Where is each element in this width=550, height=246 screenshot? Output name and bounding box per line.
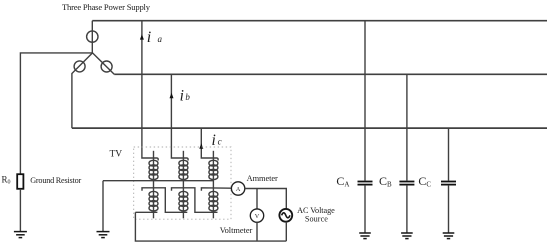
wire tap phase C (ic) [201,128,213,158]
svg-text:ib: ib [180,88,191,105]
transformer T1 primary winding [149,158,158,180]
wire neutral from star point to ground resistor [20,53,92,174]
wire T1 secondary bottom lead [135,211,157,213]
three-phase source winding C (right circle) [93,53,115,74]
transformer T2 axis [182,151,184,219]
arrow ib [170,93,174,98]
transformer T2 secondary winding [179,191,188,211]
wire AC source bottom to loop [285,222,287,241]
arrow ia [140,34,144,39]
svg-text:V: V [255,213,260,220]
wire T1 secondary top lead [142,188,187,213]
svg-text:A: A [236,186,241,193]
capacitor CA [358,182,373,185]
svg-text:CA: CA [336,174,349,189]
wire primary neutral bus [103,180,213,182]
ground (TV primary neutral) [97,232,110,238]
transformer T1 secondary winding [149,191,158,211]
capacitor CB wire bottom [406,186,408,233]
wire tap phase B (ib) [171,74,183,158]
arrow ic [199,143,203,148]
wire primary neutral down [102,181,104,232]
svg-text:R0: R0 [2,174,11,185]
svg-text:CB: CB [379,174,392,189]
capacitor CB [399,182,414,185]
svg-text:ia: ia [147,29,163,46]
three-phase source winding A (top circle) [87,21,98,53]
svg-text:Three Phase Power Supply: Three Phase Power Supply [62,2,151,12]
capacitor CC wire bottom [448,186,450,233]
AC voltage source U3 [279,209,292,222]
transformer T3 primary winding [209,158,218,180]
svg-text:Ammeter: Ammeter [247,174,278,183]
capacitor CC column wire top [448,128,450,180]
capacitor CB column wire top [406,74,408,180]
wire secondary loop bottom [135,212,286,241]
wire phase B bus [114,73,547,75]
wire source B diagonal [72,53,93,128]
ground (CB) [401,233,413,239]
capacitor CA column wire top [364,21,366,181]
wire source C diagonal [93,53,115,74]
svg-text:TV: TV [110,149,123,159]
svg-text:Ground Resistor: Ground Resistor [30,176,81,185]
ground (CA) [359,233,371,239]
svg-text:Voltmeter: Voltmeter [220,226,253,235]
capacitor CA wire bottom [364,186,366,233]
transformer T3 axis [212,151,214,219]
wire phase A bus [92,20,547,22]
transformer T3 secondary winding [209,191,218,211]
AC source sine symbol [282,213,290,218]
wire resistor to ground [19,189,21,231]
wire source A lead [91,21,93,53]
svg-text:Source: Source [305,215,328,224]
transformer T1 axis [153,151,155,219]
ammeter U1 [231,182,244,195]
voltmeter U2 [250,209,263,222]
transformer T2 primary winding [179,158,188,180]
svg-text:ic: ic [212,132,222,149]
three-phase source winding B (left circle) [72,53,93,128]
wire voltmeter bottom stem [256,222,258,241]
capacitor CC [441,182,456,185]
ground (below R0) [14,232,27,238]
resistor R0 (ground resistor) [17,174,23,189]
wire T2 secondary top lead [172,188,218,213]
wire voltmeter top stem [256,189,258,210]
svg-text:CC: CC [418,174,431,189]
TV dashed enclosure [134,147,231,219]
wire T3 secondary top lead to ammeter [201,188,231,191]
wire phase C bus [72,127,547,129]
wire tap phase A (ia) [142,21,154,158]
wire ammeter to AC source top [245,189,286,209]
ground (CC) [443,233,455,239]
